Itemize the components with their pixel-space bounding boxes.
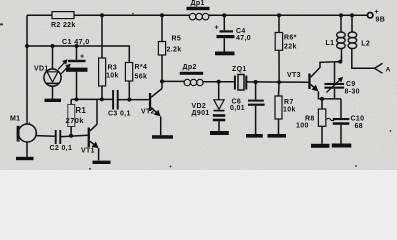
svg-text:R8: R8 (305, 116, 315, 123)
antenna A (375, 63, 383, 73)
svg-text:Др1: Др1 (191, 0, 205, 7)
svg-text:100: 100 (296, 123, 309, 130)
ground under C10 (332, 144, 352, 148)
svg-text:ZQ1: ZQ1 (232, 66, 247, 73)
ground under VT1 (93, 161, 111, 164)
svg-text:L2: L2 (361, 40, 370, 47)
crystal ZQ1 (234, 76, 236, 90)
node collector / L1 (338, 60, 342, 64)
LED VD1 emission arrows (58, 60, 67, 70)
svg-text:VT2: VT2 (141, 109, 155, 116)
wire top rail Dr1 to terminal (209, 14, 367, 16)
node R3 top (100, 13, 104, 17)
svg-text:R5: R5 (172, 36, 182, 43)
svg-text:C3 0,1: C3 0,1 (108, 111, 131, 118)
node emitter / R8 (320, 97, 324, 101)
svg-text:47,0: 47,0 (236, 35, 251, 42)
node VT2 collector / Dr2 (160, 79, 164, 83)
svg-text:22k: 22k (284, 44, 297, 51)
svg-text:A: A (386, 67, 391, 74)
node R6 top (277, 13, 281, 17)
transistor VT3 (308, 74, 310, 90)
node R4 bottom (127, 98, 131, 102)
wire R1 top to collector node (71, 98, 113, 100)
wire left drop from rail to mic bus (26, 15, 28, 46)
node L2 top (350, 13, 354, 17)
resistor R7 (278, 82, 281, 96)
svg-text:56k: 56k (135, 74, 148, 81)
resistor R5 (161, 15, 163, 41)
microphone M1 (26, 46, 28, 124)
svg-text:C10: C10 (351, 116, 365, 123)
svg-text:+: + (215, 25, 219, 32)
capacitor C1 (76, 46, 78, 60)
svg-text:0,01: 0,01 (230, 105, 245, 112)
transistor VT1 (88, 128, 90, 148)
svg-text:+: + (375, 9, 379, 16)
svg-text:10k: 10k (283, 107, 296, 114)
svg-text:C1 47,0: C1 47,0 (62, 37, 90, 46)
node bus left corner (25, 44, 29, 48)
power terminal +9V (368, 13, 373, 18)
svg-text:Др2: Др2 (183, 64, 197, 71)
node R1 bottom (69, 134, 73, 138)
svg-text:R3: R3 (108, 65, 118, 72)
node R6/R7 (277, 80, 281, 84)
svg-text:R2 22k: R2 22k (51, 22, 76, 29)
ground under VT2 (152, 135, 173, 139)
wire second bus y46 (27, 45, 130, 47)
resistor R4 (128, 46, 130, 63)
paper background grain (0, 0, 397, 170)
node L1 top (339, 13, 343, 17)
wire L2 to antenna (352, 49, 375, 69)
svg-text:R7: R7 (284, 99, 294, 106)
svg-text:C2 0,1: C2 0,1 (50, 145, 73, 152)
node C1 bottom (75, 97, 79, 101)
coil L2 (351, 15, 353, 32)
svg-text:C4: C4 (236, 28, 246, 35)
ground under VD2 (210, 131, 229, 135)
capacitor C2 (55, 130, 57, 144)
node VD2 top (217, 80, 221, 84)
capacitor C10 (340, 99, 342, 118)
capacitor C10 squiggle (327, 118, 335, 121)
ground under M1 (26, 142, 28, 157)
svg-text:R1: R1 (76, 106, 87, 115)
svg-text:L1: L1 (326, 40, 335, 47)
svg-text:R*4: R*4 (135, 64, 148, 71)
capacitor C3 (112, 90, 114, 110)
svg-text:68: 68 (355, 123, 364, 130)
svg-text:+: + (80, 54, 84, 61)
svg-text:10k: 10k (106, 73, 119, 80)
capacitor C4 (223, 15, 225, 30)
svg-text:VT1: VT1 (81, 148, 95, 155)
inductor Dr2 core bar (180, 72, 204, 75)
inductor Dr2 winding (184, 79, 190, 85)
inductor Dr1 core bar (187, 7, 210, 10)
svg-text:2.2k: 2.2k (167, 47, 182, 54)
varicap VD2 (218, 82, 220, 100)
trimmer capacitor C9 (334, 62, 336, 83)
wire top rail left segment (27, 14, 52, 16)
svg-text:VT3: VT3 (287, 72, 301, 79)
wire Dr2 to ZQ1 (203, 81, 234, 83)
resistor R8 (321, 99, 323, 109)
ground under R8 (311, 144, 330, 148)
resistor R1 (70, 99, 72, 104)
ground under C4 (215, 52, 235, 56)
inductor Dr1 winding (189, 13, 196, 20)
svg-text:270k: 270k (66, 116, 85, 125)
resistor R6 (278, 15, 280, 32)
node R5 top (160, 13, 164, 17)
resistor R2 (52, 12, 74, 19)
wire VT2 collector to Dr2 (162, 80, 184, 82)
svg-text:8-30: 8-30 (345, 89, 360, 96)
LED VD1 (52, 46, 54, 69)
transistor VT2 (149, 93, 151, 111)
svg-text:R6*: R6* (284, 35, 297, 42)
node C4 top (222, 13, 226, 17)
svg-text:C9: C9 (346, 81, 356, 88)
svg-text:M1: M1 (10, 116, 20, 123)
ground under R7 (268, 134, 287, 138)
node C6 top (254, 80, 258, 84)
resistor R3 (101, 15, 103, 58)
wire top rail R2 to Dr1 (74, 14, 190, 16)
svg-text:Д901: Д901 (192, 110, 210, 117)
node C1 top (75, 44, 79, 48)
wire ZQ1 to VT3 base (246, 81, 308, 83)
speck marks (0, 13, 391, 170)
ground under C6 (246, 134, 263, 138)
coil L1 (340, 15, 342, 32)
node R3 bottom (100, 97, 104, 101)
capacitor C6 (255, 82, 257, 100)
node VD1 top (51, 44, 55, 48)
svg-text:VD1: VD1 (34, 66, 49, 73)
svg-text:9В: 9В (376, 17, 386, 24)
